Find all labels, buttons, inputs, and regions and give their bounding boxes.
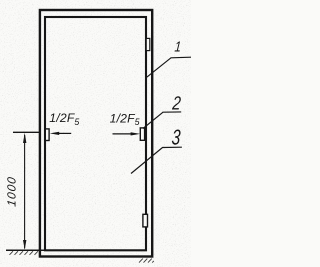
svg-text:1000: 1000 [4, 175, 18, 207]
svg-text:1/2F: 1/2F [110, 111, 137, 125]
svg-text:5: 5 [135, 117, 140, 127]
svg-text:5: 5 [74, 117, 79, 127]
svg-text:1/2F: 1/2F [49, 111, 76, 125]
